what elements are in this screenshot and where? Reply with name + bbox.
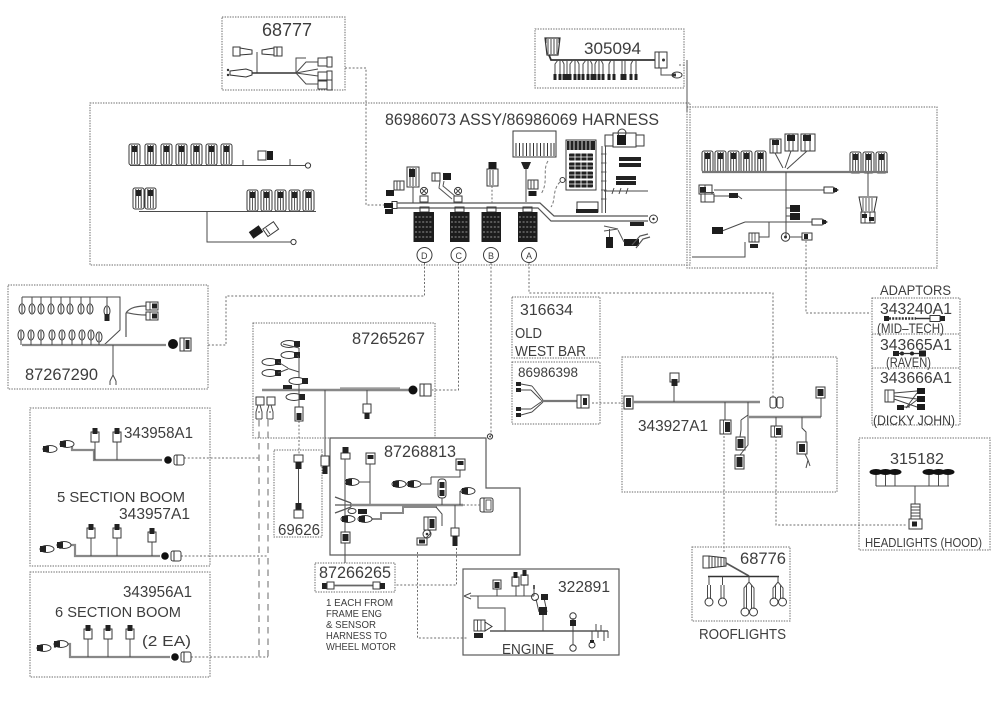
wire drop 2 (722, 577, 724, 586)
wire boom link dashed left (258, 420, 260, 657)
connector right up (820, 398, 822, 417)
connector prongs boom links (256, 405, 262, 419)
connector drop right (366, 390, 368, 404)
connector cluster right of fuses (616, 157, 641, 185)
wire tie with ticks (604, 190, 648, 192)
box 87266265 (315, 563, 395, 592)
connector pair right of stem (790, 205, 800, 212)
connector tall striped left (407, 167, 419, 187)
connector hatched plug (911, 504, 920, 519)
connector cluster left (699, 185, 712, 194)
connector tiny pair left (386, 190, 394, 196)
svg-text:86986398: 86986398 (518, 364, 578, 380)
connector riser 1 (542, 612, 544, 631)
wire cab harness to adaptor 343240A1 (806, 241, 871, 313)
node grommet ring D (420, 187, 427, 194)
wire fuse ladder (601, 146, 603, 213)
wire long drop (740, 415, 748, 455)
connector right block (655, 52, 667, 68)
connector drop 2 (775, 417, 777, 426)
box 87268813 (330, 438, 520, 555)
node D circle (417, 248, 432, 263)
connector left lead (37, 645, 51, 652)
svg-text:WHEEL MOTOR: WHEEL MOTOR (326, 642, 396, 653)
connector top stub (673, 386, 675, 402)
wire top bus (22, 297, 120, 345)
wire s-curve right (541, 161, 548, 194)
connector dsub right (480, 498, 493, 512)
connector squares below bus (256, 397, 264, 405)
svg-text:(DICKY JOHN): (DICKY JOHN) (873, 413, 955, 428)
connector comb block (513, 131, 556, 157)
wire node D to 87267290 (208, 263, 425, 345)
wire 343927A1 to headlights 315182 (776, 436, 906, 525)
wire main bus (702, 171, 888, 173)
connector left (624, 396, 633, 409)
adaptor 343666A1 wires crossing (885, 390, 894, 402)
wire main bus (351, 504, 463, 506)
wire 68777 to main harness (345, 68, 384, 205)
node dot and exit connector (164, 456, 172, 464)
connector left pair (345, 479, 359, 486)
svg-text:68777: 68777 (262, 20, 312, 40)
box 69626 (274, 450, 322, 537)
connector drop 1 (724, 402, 726, 420)
wire bus (549, 55, 655, 60)
connector arrow sub bus (812, 219, 827, 225)
connector row 2 right housings (247, 190, 258, 211)
connector grid square (394, 181, 404, 190)
connector left (322, 583, 327, 589)
connector top left small (341, 453, 350, 459)
svg-text:343240A1: 343240A1 (880, 301, 952, 318)
connector top right (456, 459, 465, 470)
svg-text:86986073 ASSY/86986069 HARNESS: 86986073 ASSY/86986069 HARNESS (385, 111, 659, 129)
svg-text:343666A1: 343666A1 (880, 370, 952, 387)
connector right (373, 582, 380, 589)
note text wheel motor (326, 598, 396, 653)
wire stem1 (369, 464, 371, 505)
wire short stub (714, 196, 742, 199)
connector diag pair (249, 225, 263, 238)
box 87267290 (8, 285, 208, 389)
connector low block left of bus (577, 202, 598, 212)
connector adaptor feed (802, 233, 812, 240)
svg-text:(2 EA): (2 EA) (142, 633, 191, 650)
wire branch to dot (436, 507, 442, 526)
connector left lead (230, 69, 252, 77)
wire staircase below (372, 507, 437, 519)
connector block A (523, 207, 532, 212)
connector funnel A (521, 162, 531, 169)
connector bottom right (451, 528, 459, 536)
connector striped horizontal below bus (624, 239, 639, 246)
node grommet (781, 233, 789, 241)
wire long drop (112, 345, 114, 375)
box 322891 engine (463, 569, 619, 655)
connector pair on bus (289, 378, 305, 385)
connector right top (318, 58, 327, 66)
wire 343956A1 to link (191, 656, 268, 658)
wire bus row 2 (139, 211, 316, 213)
wire bus T (876, 485, 949, 487)
wire drop from pair (256, 52, 258, 73)
svg-text:87266265: 87266265 (319, 564, 391, 582)
wire 87268813 to engine box (418, 552, 468, 638)
wire elbow exit (692, 242, 745, 257)
wire vert right (454, 505, 456, 535)
connector pair mid row1 (258, 151, 266, 160)
svg-text:87268813: 87268813 (384, 443, 456, 461)
wire drop 1 (708, 577, 710, 586)
box adaptors (872, 298, 960, 425)
connector fork squares (146, 302, 158, 310)
connector pin tips (554, 74, 638, 80)
wire funnel drop (867, 173, 869, 196)
box 305094 (535, 29, 684, 88)
connector block C (455, 207, 464, 212)
connector fork pair (262, 359, 278, 366)
wire stem (412, 187, 414, 203)
wire riser 1 (298, 348, 300, 390)
svg-text:ADAPTORS: ADAPTORS (880, 282, 951, 298)
node black dot (168, 339, 178, 349)
wire horiz long (714, 189, 824, 191)
connector ovals bottom row (18, 330, 102, 345)
box 343927A1 (622, 357, 837, 492)
svg-text:316634: 316634 (520, 302, 573, 319)
box 316634 old west bar (512, 297, 600, 358)
connector lower mid (417, 538, 427, 545)
wire below bus (604, 226, 618, 231)
box right cab harness (687, 107, 937, 268)
connector arrow right (824, 187, 838, 193)
connector ovals top row (19, 297, 93, 314)
svg-text:69626: 69626 (278, 522, 320, 539)
connector tall striped B (487, 169, 498, 186)
wire 69626 leader (298, 421, 300, 455)
wire sub bus (745, 221, 812, 223)
connector capsule (438, 479, 446, 498)
box 68777 (222, 17, 345, 90)
connector left lead (43, 446, 57, 453)
connector chain bottom (341, 532, 350, 543)
wire to terminal (661, 68, 672, 75)
connector striped vertical below bus (606, 237, 613, 248)
wire elbow top right (431, 470, 460, 477)
connector stair pair (358, 516, 372, 523)
connector funnel (859, 197, 877, 212)
svg-text:305094: 305094 (584, 39, 641, 58)
wire bus (55, 644, 170, 657)
svg-text:WEST BAR: WEST BAR (515, 343, 586, 360)
box 86986398 (512, 362, 600, 424)
wire node B to 87268813 (490, 263, 492, 438)
connector block 83 (424, 517, 436, 530)
wire bottom bus (22, 344, 166, 346)
wire 305094 to cab harness (679, 64, 687, 66)
wire stub ticks row1 (242, 160, 244, 166)
svg-text:68776: 68776 (740, 550, 786, 568)
connector top pair (281, 341, 300, 349)
wire main bus (392, 202, 397, 209)
wire 343958A1 to link (184, 457, 259, 459)
connector top stubs (496, 588, 498, 596)
node A circle (522, 248, 537, 263)
relay block (605, 135, 613, 146)
wire branch box (296, 58, 306, 73)
wire 343927A1 to rooflights (723, 436, 725, 553)
fuse panel (566, 140, 596, 190)
svg-text:D: D (421, 251, 428, 261)
connector housings right row (850, 152, 861, 173)
svg-text:C: C (456, 251, 463, 261)
connector tiny on bus (283, 385, 292, 389)
wire drop ring (572, 631, 574, 645)
wire node A to 343927A1 (529, 263, 773, 397)
connector fork bottom (516, 407, 521, 411)
connector riser 2 (572, 618, 574, 631)
wire 86986398 to 343927A1 (592, 402, 625, 404)
connector right exit (180, 338, 191, 351)
svg-text:ENGINE: ENGINE (502, 642, 554, 658)
connector row 1 housings (129, 144, 140, 165)
connector label strip (630, 222, 644, 226)
box 86986073 assy harness (90, 103, 690, 265)
svg-text:322891: 322891 (558, 579, 610, 596)
connector fork top (516, 382, 521, 386)
svg-text:HARNESS TO: HARNESS TO (326, 631, 387, 642)
wire trunk (252, 72, 296, 74)
wire bus (72, 444, 162, 460)
box 6 section boom (30, 572, 210, 677)
box 5 section boom (30, 408, 210, 566)
wire vertical chain (344, 459, 346, 532)
svg-text:87267290: 87267290 (25, 366, 98, 384)
connector tiny pair below bus (384, 203, 393, 208)
wire drop 4 pair (777, 577, 779, 583)
wire fan out (296, 62, 318, 73)
node end ring row 2 (291, 239, 296, 244)
svg-text:5 SECTION BOOM: 5 SECTION BOOM (57, 489, 185, 506)
connector block D (420, 207, 429, 212)
node dot and exit connector (171, 653, 179, 661)
node small grommet (560, 178, 565, 183)
connector 10 (770, 397, 776, 408)
wire bus 1 (633, 401, 760, 403)
wire drop row 2 (207, 212, 291, 243)
node black dot (409, 386, 418, 395)
wire bus (708, 576, 779, 578)
wire main bus (262, 389, 412, 391)
wire (334, 585, 373, 587)
svg-text:OLD: OLD (515, 325, 542, 342)
wire boom link dashed right (267, 420, 269, 657)
connector elbow (736, 437, 745, 450)
wire 343957A1 to link (181, 555, 268, 557)
wire drop combs (555, 60, 636, 77)
connector block B (487, 207, 496, 212)
svg-text:(RAVEN): (RAVEN) (886, 355, 931, 370)
adaptor 343240A1 wire (884, 316, 889, 321)
connector top conn1 (366, 453, 375, 464)
wire node C to 87265267 (432, 263, 459, 390)
wire trident fork (335, 497, 351, 513)
connector housings top (770, 139, 781, 153)
wire grommet to connector (790, 236, 802, 238)
connector drop 2 (324, 390, 326, 456)
connector right (577, 395, 589, 408)
node ring bottom (423, 530, 431, 538)
connector top (294, 455, 303, 462)
connector drop mid (298, 390, 300, 407)
svg-text:B: B (488, 251, 494, 261)
wire lower bus (490, 630, 608, 632)
wire (298, 469, 300, 503)
svg-text:& SENSOR: & SENSOR (326, 620, 376, 631)
connector left cap (545, 38, 560, 55)
wire fork right (126, 306, 146, 337)
wire main stem (785, 172, 787, 237)
wire upper run (470, 595, 534, 597)
connector c9 (461, 488, 475, 495)
connector small above stair (358, 509, 367, 514)
node junction ring at 87268813 (487, 434, 492, 439)
connector row 2 left housings (133, 188, 144, 209)
connector terminal (672, 72, 682, 78)
wire elbow tube right (632, 234, 648, 245)
wire fork merge (531, 386, 543, 412)
wire diag to bus (726, 563, 749, 576)
svg-text:315182: 315182 (890, 451, 944, 468)
wire bus 2 (749, 416, 821, 418)
connector right mid (318, 72, 327, 80)
wire 87268813 to 87266265 (395, 548, 457, 585)
svg-text:6 SECTION BOOM: 6 SECTION BOOM (55, 604, 181, 621)
connector left block (474, 620, 485, 631)
connector pair top (233, 47, 240, 56)
connector housings left row (702, 151, 713, 172)
node end ring row 1 (305, 163, 310, 168)
connector drop 3 elbow (802, 417, 806, 442)
connector fork tip (110, 375, 116, 385)
wire branch down (741, 402, 748, 420)
harness 343957A1 (60, 545, 160, 556)
connector right exit (420, 384, 431, 396)
svg-text:1 EACH FROM: 1 EACH FROM (326, 598, 393, 609)
wire drop 3 pair (748, 577, 750, 583)
svg-text:87265267: 87265267 (352, 330, 425, 348)
wire bus row 1 (130, 165, 306, 167)
wire elbow branch (439, 181, 452, 199)
wire center stem (914, 486, 916, 504)
svg-text:(MID–TECH): (MID–TECH) (877, 321, 944, 336)
connector oval w blob (106, 297, 108, 306)
wire diag branch (722, 222, 745, 231)
connector small pair mid (432, 173, 440, 181)
wire bus hatch (340, 387, 400, 389)
node grommet ring C (454, 187, 461, 194)
node C circle (451, 248, 466, 263)
box 87265267 (253, 323, 435, 438)
connector block lower (749, 233, 759, 242)
svg-text:343927A1: 343927A1 (638, 418, 708, 435)
node B circle (484, 248, 499, 263)
svg-text:343665A1: 343665A1 (880, 337, 952, 354)
node bus end ring (650, 215, 658, 223)
box 68776 rooflights (692, 547, 790, 621)
adaptor 343665A1 wire (893, 351, 899, 356)
wire diagonals to junction (775, 153, 783, 168)
wire comb right (592, 624, 608, 641)
svg-text:HEADLIGHTS (HOOD): HEADLIGHTS (HOOD) (865, 535, 982, 550)
connector hatched block (528, 180, 538, 189)
svg-text:343956A1: 343956A1 (123, 584, 192, 601)
svg-text:343958A1: 343958A1 (124, 425, 193, 442)
connector mid pair (392, 481, 406, 488)
connector bottom (296, 503, 302, 510)
connector risers (94, 441, 96, 460)
connector hatched left (703, 556, 709, 568)
svg-text:A: A (526, 251, 532, 261)
connector right bottom (318, 81, 327, 89)
wire left tick (464, 593, 471, 599)
svg-text:FRAME ENG: FRAME ENG (326, 609, 382, 620)
wire drops with blobs (876, 475, 948, 486)
box 315182 headlights (859, 438, 990, 550)
connector risers (87, 638, 89, 657)
wire 87266265 leader (344, 543, 346, 563)
svg-text:ROOFLIGHTS: ROOFLIGHTS (699, 627, 786, 643)
svg-text:343957A1: 343957A1 (119, 506, 190, 523)
